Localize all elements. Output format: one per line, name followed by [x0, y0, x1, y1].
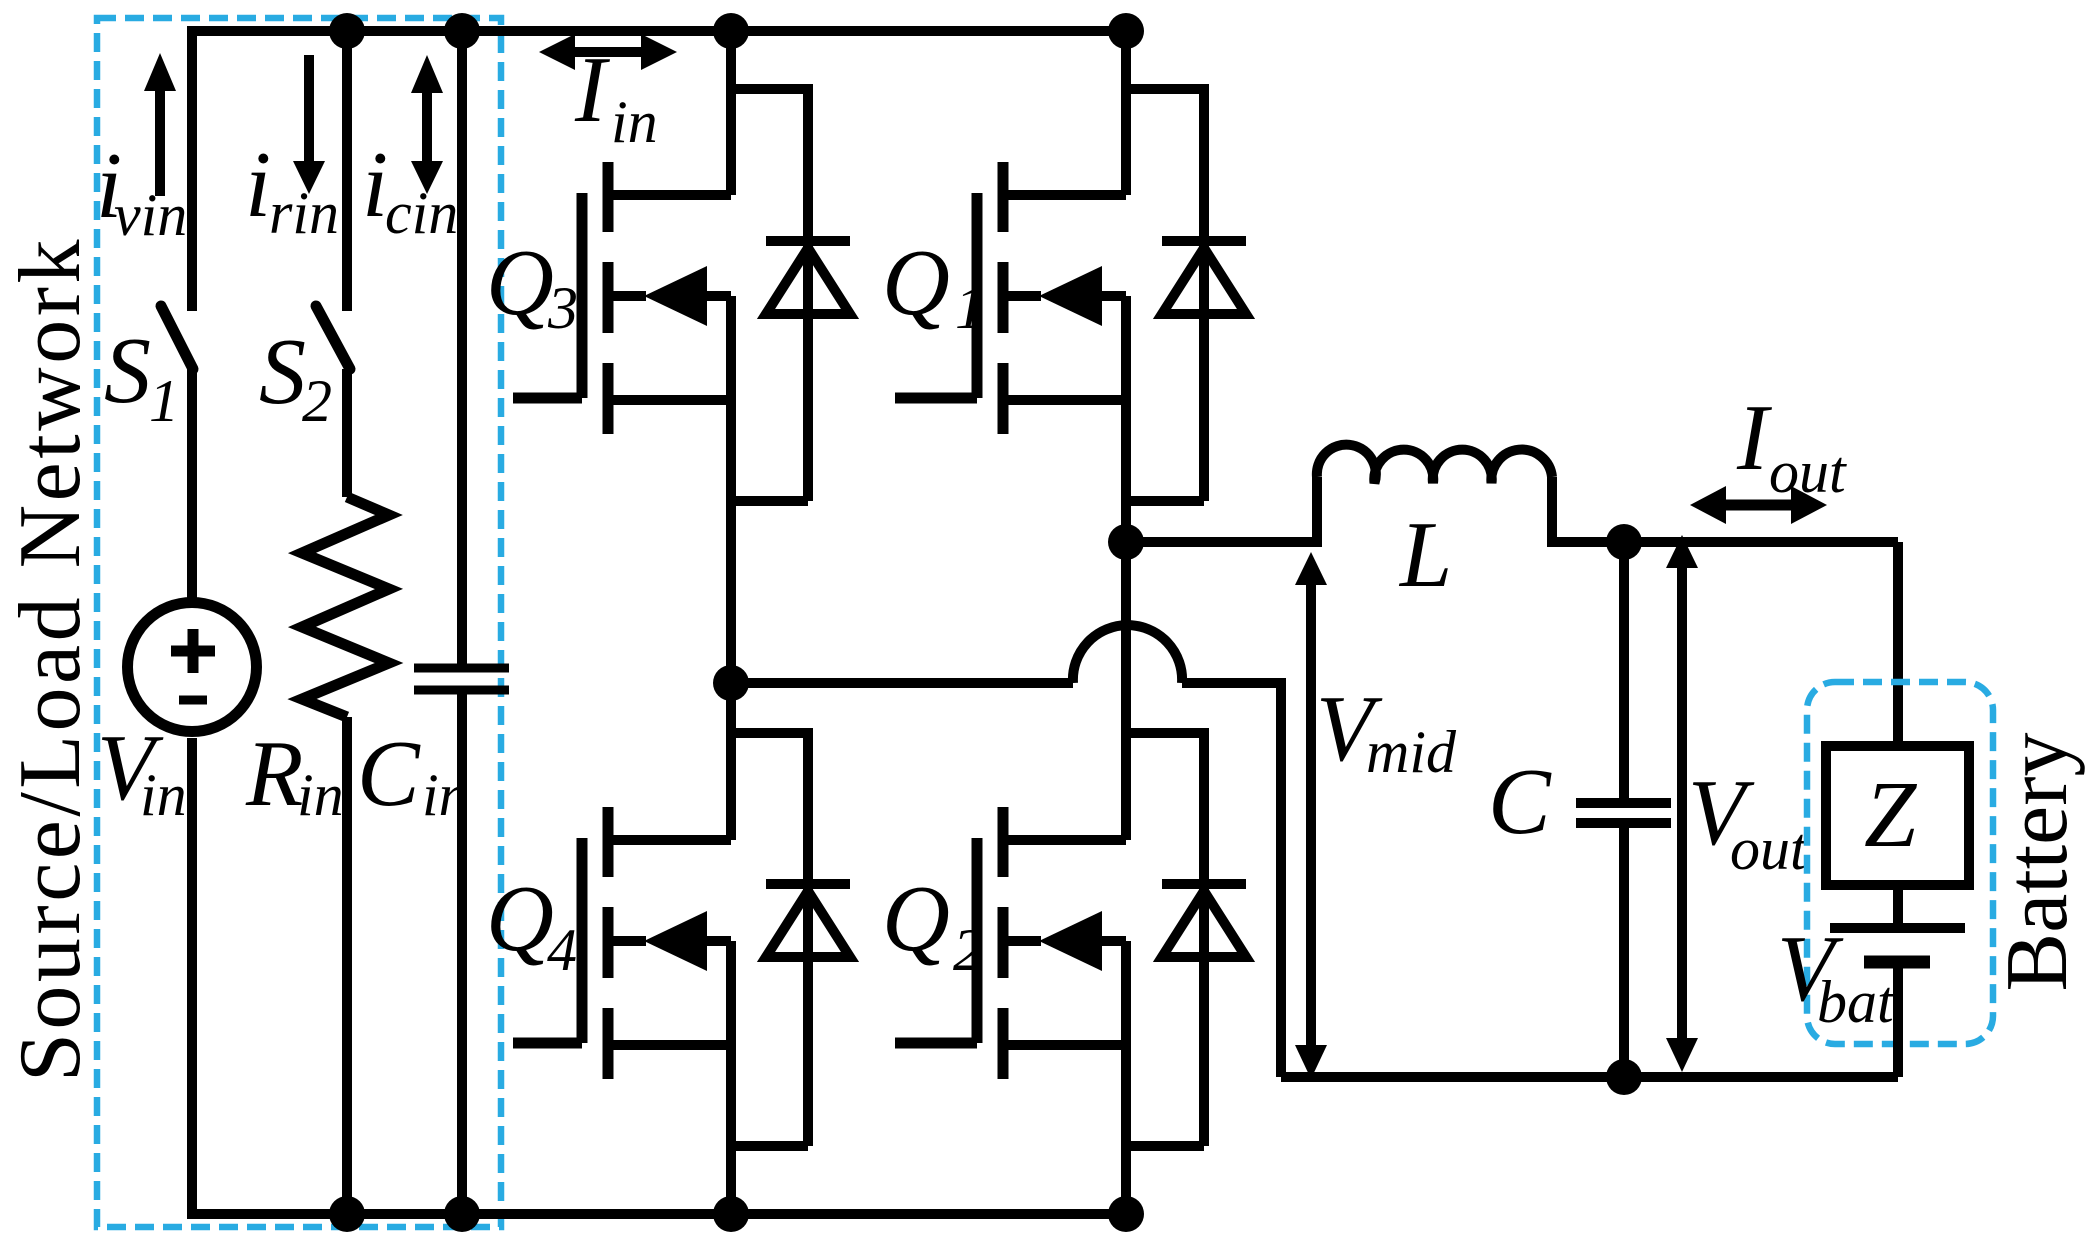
capacitor Cin	[414, 668, 509, 690]
svg-text:1: 1	[149, 368, 179, 434]
svg-text:out: out	[1730, 816, 1808, 882]
svg-text:rin: rin	[269, 180, 339, 246]
Q4 drain connection	[613, 683, 731, 840]
battery cell Vbat long plate	[1830, 923, 1965, 933]
svg-text:1: 1	[955, 275, 985, 341]
svg-text:Q: Q	[882, 867, 950, 971]
svg-text:R: R	[245, 722, 303, 826]
svg-text:Source/Load Network: Source/Load Network	[2, 236, 99, 1082]
measurement arrow V_mid	[1306, 581, 1316, 1049]
transistor Q4	[486, 683, 731, 1214]
wire: Rin branch upper	[342, 31, 352, 311]
svg-text:Q: Q	[882, 231, 950, 335]
Q4 channel bars	[603, 807, 614, 1079]
node dot: Q3/Q4 midpoint	[713, 665, 749, 701]
svg-text:I: I	[574, 38, 610, 142]
current arrow i_rin	[304, 55, 314, 164]
Q3 channel bars	[603, 162, 614, 434]
wire: resistor to bottom rail	[342, 717, 352, 1214]
node dot: bottom rail / Vin	[329, 1196, 365, 1232]
transistor Q3	[486, 31, 731, 683]
diode D4 (body diode of Q4)	[731, 733, 850, 1146]
Q3 drain connection	[613, 31, 731, 195]
diode D2 (body diode of Q2)	[1126, 733, 1246, 1146]
node dot: bottom rail / Cin	[444, 1196, 480, 1232]
battery dashed box	[1807, 682, 1993, 1044]
node dot: output top / C	[1606, 524, 1642, 560]
node dot: output bottom / C	[1606, 1059, 1642, 1095]
transistor Q1	[882, 31, 1126, 542]
node dot: bottom rail / Q2 source	[1108, 1196, 1144, 1232]
Q1 channel bars	[998, 162, 1009, 434]
svg-text:3: 3	[547, 275, 578, 341]
node dot: top rail / Q1 drain	[1108, 13, 1144, 49]
node dot: top rail / Rin branch	[329, 13, 365, 49]
svg-text:i: i	[245, 133, 271, 237]
wire: bottom rail from Vin branch to Q2 source	[192, 738, 1126, 1214]
svg-text:L: L	[1398, 503, 1452, 607]
svg-text:in: in	[611, 89, 658, 155]
wire: switch node to inductor	[1126, 477, 1317, 542]
wire: Cin branch upper	[457, 31, 467, 666]
wire: top rail from Vin branch to Q1 drain	[192, 31, 1126, 311]
current arrow i_cin	[422, 91, 432, 164]
svg-text:2: 2	[953, 917, 983, 983]
wire: C branch upper	[1619, 542, 1629, 798]
node dot: switch node Q1/Q2	[1108, 524, 1144, 560]
Q4 body arrow	[613, 936, 731, 946]
node dot: top rail / Q3 drain	[713, 13, 749, 49]
source/load network dashed box	[97, 18, 501, 1227]
svg-text:Z: Z	[1864, 763, 1918, 867]
wire: S2 to resistor	[342, 369, 352, 497]
svg-text:vin: vin	[114, 182, 187, 248]
svg-text:in: in	[297, 762, 344, 828]
wire: Q3/Q4 midpoint to crossover	[731, 678, 1073, 688]
impedance Z box	[1826, 746, 1969, 885]
node dot: bottom rail / Q4 source	[713, 1196, 749, 1232]
svg-text:C: C	[1488, 750, 1552, 854]
svg-text:S: S	[104, 319, 151, 423]
Q3 gate wire	[513, 193, 582, 398]
Q2 channel bars	[998, 807, 1009, 1079]
svg-text:I: I	[1736, 386, 1772, 490]
node dot: top rail / Cin branch	[444, 13, 480, 49]
Q2 body arrow	[1008, 936, 1126, 946]
Q1 gate wire	[895, 193, 977, 398]
Q2 gate wire	[895, 838, 977, 1043]
Q2 source connection	[1008, 941, 1126, 1214]
wire: Cin to bottom rail	[457, 692, 467, 1214]
svg-text:Battery: Battery	[1989, 732, 2086, 991]
switch S2	[316, 306, 350, 369]
wire: output bottom rail	[1281, 1072, 1898, 1082]
voltage source Vin	[128, 603, 257, 732]
svg-text:Q: Q	[486, 231, 554, 335]
Q1 drain connection	[1008, 31, 1126, 195]
wire: hop to output bottom corner	[1182, 683, 1281, 1077]
measurement arrow V_out	[1677, 565, 1687, 1042]
svg-text:4: 4	[547, 917, 577, 983]
svg-text:mid: mid	[1366, 719, 1457, 785]
wire: Z to battery cell	[1893, 885, 1903, 923]
diode D1 (body diode of Q1)	[1126, 89, 1246, 501]
wire: output top rail to battery	[1893, 542, 1903, 746]
inductor L	[1317, 445, 1552, 483]
svg-text:in: in	[140, 762, 187, 828]
switch S1	[161, 306, 193, 369]
capacitor C	[1576, 803, 1671, 823]
resistor Rin	[302, 497, 389, 717]
Q4 source connection	[613, 941, 731, 1214]
svg-text:Q: Q	[486, 867, 554, 971]
wire: battery cell to output bottom rail	[1893, 967, 1903, 1077]
svg-text:2: 2	[302, 368, 332, 434]
battery cell Vbat short plate	[1864, 956, 1930, 969]
svg-text:C: C	[357, 722, 421, 826]
current arrow I_out	[1720, 500, 1797, 511]
Q1 body arrow	[1008, 291, 1126, 301]
Q3 source connection	[613, 296, 731, 683]
Q2 drain connection	[1008, 542, 1126, 840]
Q3 body arrow	[613, 291, 731, 301]
Q1 source connection	[1008, 296, 1126, 542]
diode D3 (body diode of Q3)	[731, 89, 850, 501]
wire: inductor to output top rail	[1552, 477, 1898, 542]
wire: S1 to Vin source	[187, 369, 197, 600]
current arrow I_in	[569, 47, 647, 57]
current arrow i_vin	[155, 89, 165, 196]
wire: C branch lower	[1619, 827, 1629, 1077]
svg-text:bat: bat	[1817, 969, 1895, 1035]
svg-text:S: S	[259, 320, 306, 424]
svg-text:out: out	[1769, 439, 1847, 505]
Q4 gate wire	[513, 838, 582, 1043]
transistor Q2	[882, 542, 1126, 1214]
svg-text:cin: cin	[385, 180, 458, 246]
wire crossover hop	[1073, 625, 1182, 683]
